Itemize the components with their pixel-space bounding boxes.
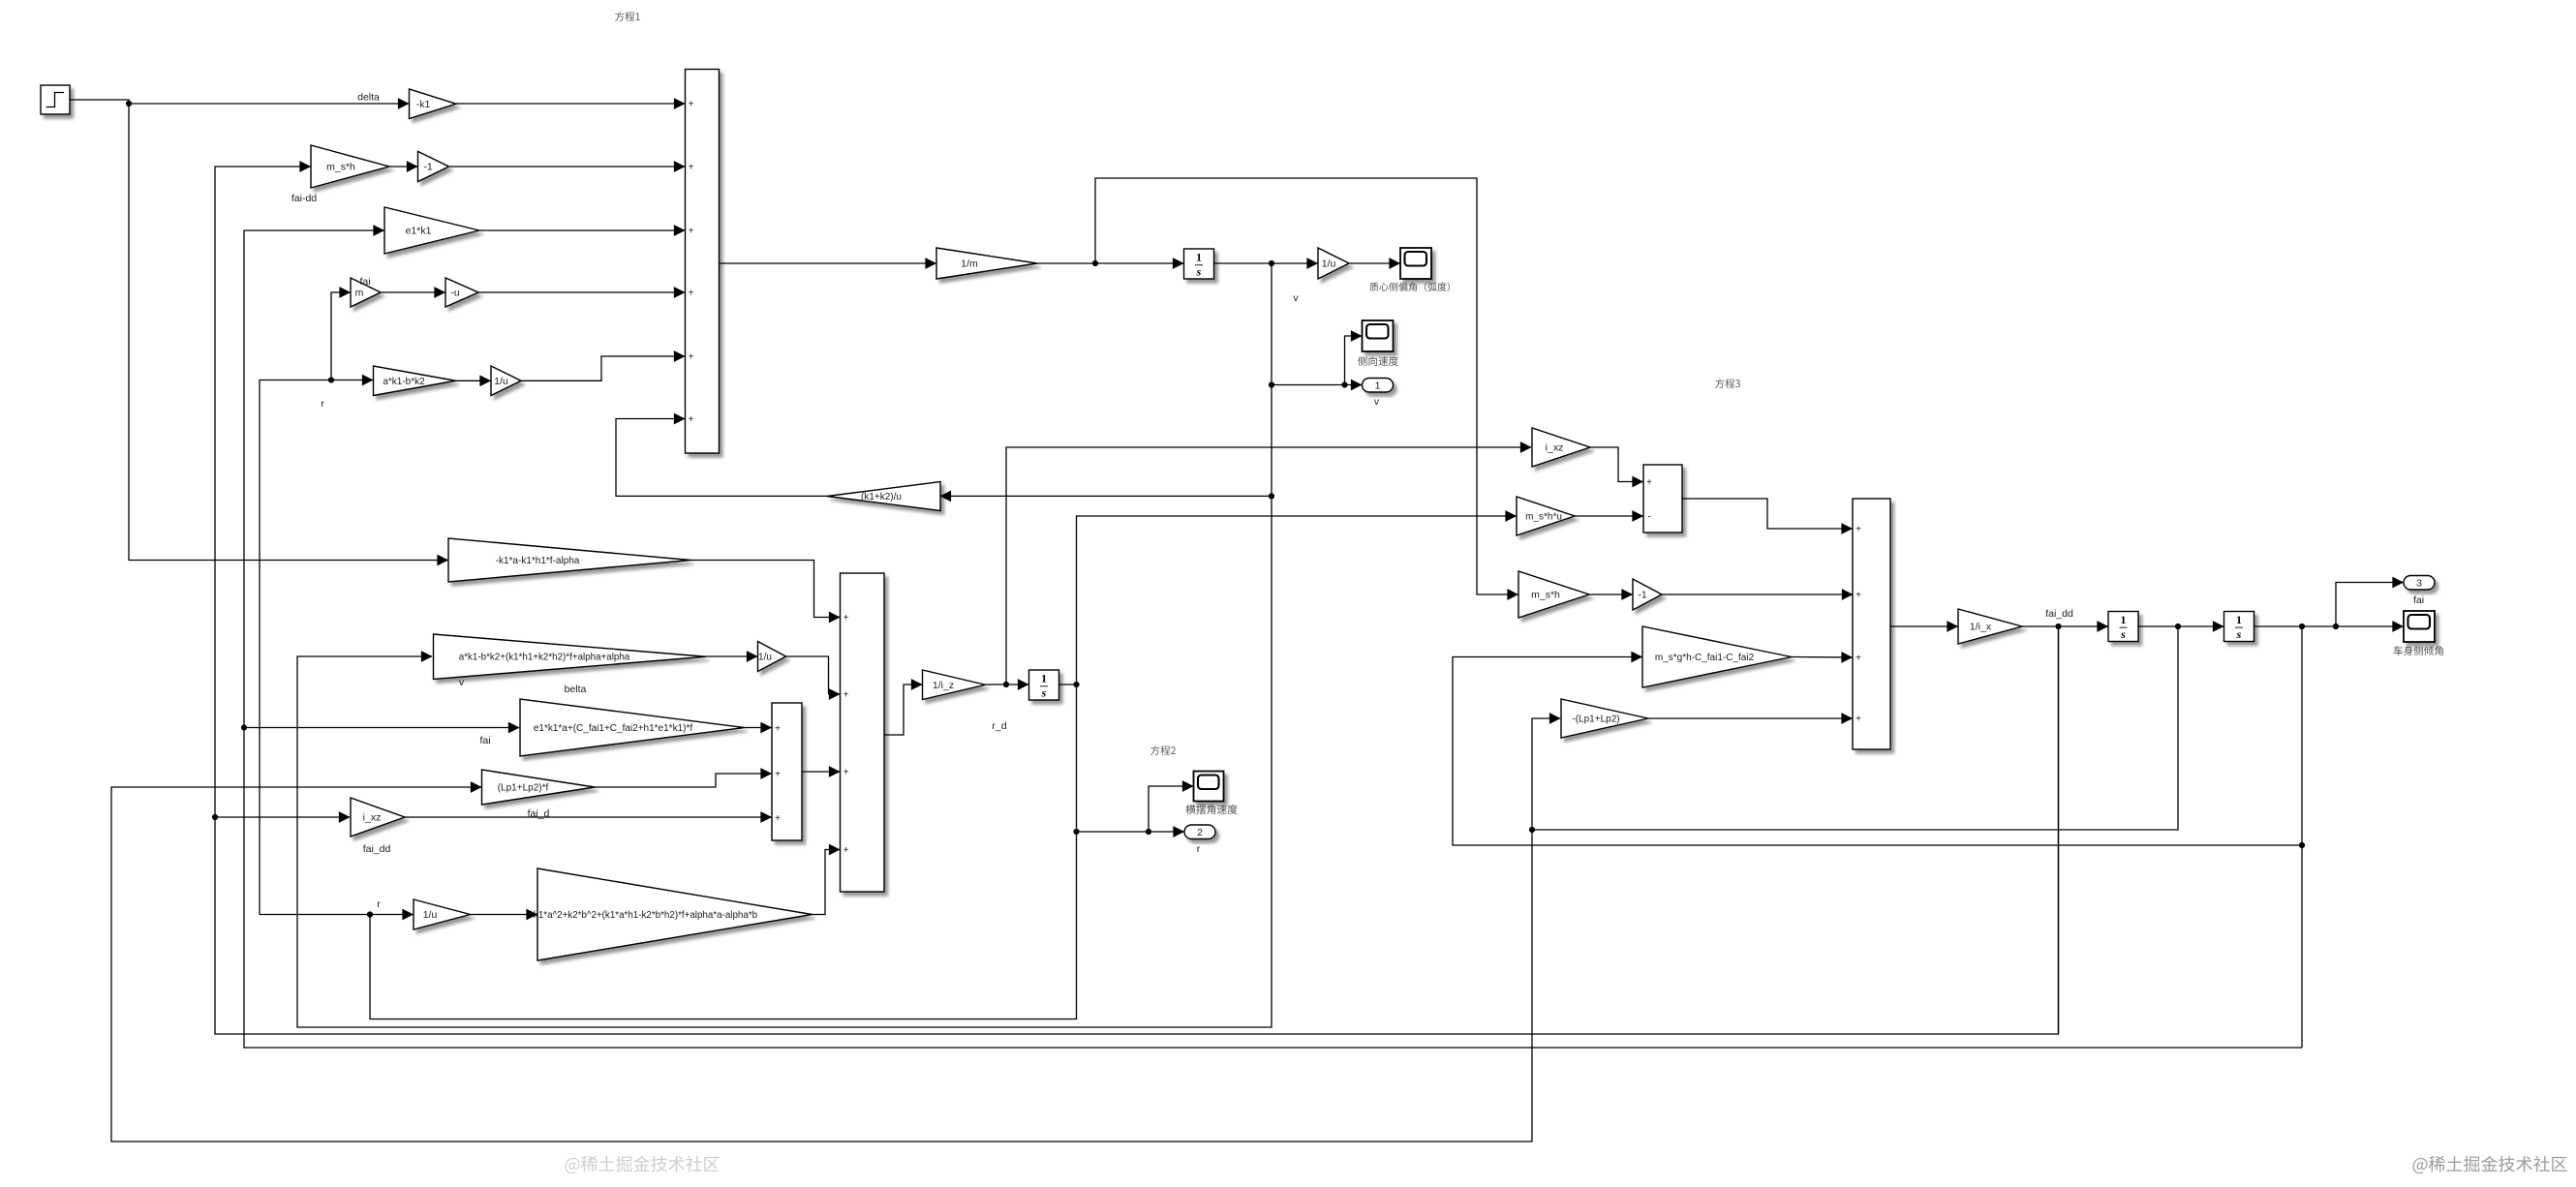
svg-text:s: s bbox=[2236, 627, 2242, 641]
svg-text:belta: belta bbox=[565, 684, 587, 695]
svg-text:+: + bbox=[843, 613, 849, 624]
svg-text:-u: -u bbox=[450, 288, 459, 299]
svg-text:-: - bbox=[1647, 511, 1650, 522]
scope 侧向速度 bbox=[1363, 320, 1394, 351]
wire 1/m to integrator bbox=[1037, 262, 1183, 264]
wire 1/i_x to integrator bbox=[2022, 625, 2108, 627]
junction delta bbox=[126, 101, 132, 107]
wire m to -u bbox=[381, 291, 445, 293]
junction fai_dd tap bbox=[212, 814, 218, 820]
svg-text:s: s bbox=[1196, 265, 1202, 279]
wire v to scope 侧向速度 bbox=[1345, 336, 1363, 385]
svg-text:a*k1-b*k2: a*k1-b*k2 bbox=[383, 377, 425, 387]
output port 3 fai bbox=[2404, 576, 2435, 591]
wire a*k1-b*k2 to 1/u bbox=[456, 380, 491, 381]
svg-text:r: r bbox=[377, 898, 381, 910]
gain m bbox=[351, 278, 381, 307]
junction r bottom bbox=[367, 911, 373, 917]
svg-text:a*k1-b*k2+(k1*h1+k2*h2)*f+alph: a*k1-b*k2+(k1*h1+k2*h2)*f+alpha+alpha bbox=[459, 653, 630, 663]
wire e1*k1 to sum bbox=[479, 229, 685, 231]
junction r out bbox=[1073, 682, 1079, 687]
gain i_xz (eq2) bbox=[351, 798, 405, 837]
svg-text:i_xz: i_xz bbox=[1546, 442, 1564, 454]
junction fai tap bbox=[241, 724, 247, 730]
svg-text:v: v bbox=[1374, 396, 1380, 408]
gain 1/i_z bbox=[923, 670, 986, 700]
wire integrator to integrator bbox=[2139, 625, 2224, 627]
wire fai feedback to e1*k1 bbox=[244, 230, 2302, 1048]
svg-text:m_s*h: m_s*h bbox=[1531, 590, 1560, 601]
svg-text:1/i_x: 1/i_x bbox=[1970, 622, 1992, 633]
junction vdot bbox=[1092, 260, 1098, 266]
svg-text:2: 2 bbox=[1197, 827, 1203, 838]
wire fai_dd to i_xz bbox=[215, 816, 350, 818]
label 质心侧偏角（弧度） bbox=[1369, 282, 1450, 291]
sum block eq1 bbox=[686, 70, 720, 454]
wire (Lp1+Lp2)*f to small sum bbox=[595, 774, 772, 787]
svg-text:e1*k1: e1*k1 bbox=[406, 226, 432, 237]
label 横摆角速度 bbox=[1185, 805, 1237, 814]
svg-text:-1: -1 bbox=[1638, 590, 1646, 601]
gain 1/u (r row) bbox=[414, 899, 471, 929]
gain 1/i_x bbox=[1958, 609, 2022, 644]
gain 1/u (belta) bbox=[758, 642, 786, 672]
svg-text:fai: fai bbox=[479, 735, 490, 746]
junction fai m_s*g*h tap bbox=[2299, 842, 2305, 848]
gain (Lp1+Lp2)*f bbox=[482, 770, 596, 805]
wire r feedback down bbox=[370, 685, 1077, 1020]
svg-text:s: s bbox=[2120, 627, 2126, 641]
svg-text:3: 3 bbox=[2416, 578, 2422, 590]
wire -k1*a gain to sum eq2 input1 bbox=[690, 561, 840, 618]
wire sum to 1/m bbox=[720, 262, 936, 264]
wire v feedback to belta gain bbox=[297, 263, 1272, 1027]
annotation 方程3 bbox=[1715, 379, 1740, 388]
svg-text:r: r bbox=[1197, 843, 1201, 855]
gain 1/m bbox=[936, 248, 1037, 279]
wire -(Lp1+Lp2) to sum eq3 bbox=[1648, 717, 1853, 719]
svg-text:-(Lp1+Lp2): -(Lp1+Lp2) bbox=[1572, 715, 1619, 725]
wire fai_d to (Lp1+Lp2)*f bbox=[111, 787, 1532, 1141]
wire m_s*h to -1 eq3 bbox=[1589, 593, 1633, 595]
svg-text:fai_dd: fai_dd bbox=[363, 843, 391, 855]
svg-text:m: m bbox=[355, 288, 364, 299]
gain i_xz (eq3) bbox=[1532, 428, 1590, 467]
wire r to left riser bbox=[260, 914, 370, 916]
svg-text:-k1*a-k1*h1*f-alpha: -k1*a-k1*h1*f-alpha bbox=[496, 556, 580, 566]
wire m_s*g*h to sum eq3 bbox=[1792, 656, 1853, 659]
svg-text:fai_d: fai_d bbox=[528, 808, 550, 820]
wire delta down to -k1*a gain bbox=[129, 104, 448, 561]
step input block bbox=[41, 85, 70, 114]
wire (k1+k2)/u to sum input 6 bbox=[616, 419, 827, 497]
sum block (3 inputs eq2) bbox=[772, 703, 802, 840]
wire vdot to m_s*h eq3 bbox=[1095, 178, 1518, 594]
svg-text:delta: delta bbox=[357, 92, 380, 104]
gain k1*a^2+k2*b^2+(k1*a*h1-k2*b*h2)*f+alpha*a-alpha*b bbox=[534, 868, 813, 960]
gain m_s*g*h-C_fai1-C_fai2 bbox=[1642, 626, 1792, 687]
svg-text:1/u: 1/u bbox=[758, 653, 772, 663]
gain 1/u (a*k1-b*k2 row) bbox=[491, 366, 521, 396]
svg-text:s: s bbox=[1041, 686, 1047, 700]
watermark right bbox=[2413, 1156, 2567, 1173]
svg-text:e1*k1*a+(C_fai1+C_fai2+h1*e1*k: e1*k1*a+(C_fai1+C_fai2+h1*e1*k1)*f bbox=[534, 723, 693, 734]
gain a*k1-b*k2 bbox=[374, 366, 456, 396]
svg-text:1/u: 1/u bbox=[494, 376, 508, 387]
scope 质心侧偏角（弧度） bbox=[1400, 248, 1431, 279]
gain -k1*a-k1*h1*f-alpha bbox=[448, 538, 690, 582]
junction r bbox=[328, 377, 334, 382]
wire r to m gain bbox=[331, 292, 351, 380]
svg-text:1: 1 bbox=[1041, 672, 1047, 685]
svg-text:(Lp1+Lp2)*f: (Lp1+Lp2)*f bbox=[498, 783, 549, 794]
wire integrator r out bbox=[1058, 684, 1077, 685]
junction fai port tap bbox=[2333, 624, 2339, 629]
junction fai_dd out bbox=[2055, 624, 2061, 629]
wire r_d to i_xz eq3 bbox=[1006, 447, 1531, 685]
gain e1*k1 bbox=[384, 207, 479, 254]
svg-text:+: + bbox=[843, 845, 849, 856]
wire fai_dd feedback to m_s*h bbox=[215, 167, 2059, 1034]
svg-text:+: + bbox=[1855, 524, 1861, 534]
svg-text:(k1+k2)/u: (k1+k2)/u bbox=[861, 492, 902, 502]
svg-text:v: v bbox=[1293, 292, 1299, 304]
svg-text:1: 1 bbox=[1196, 251, 1202, 264]
wire e1*k1*a to small sum bbox=[745, 727, 772, 729]
wire big gain to sum eq2 input4 bbox=[813, 850, 841, 915]
wire fai to m_s*g*h gain bbox=[1453, 657, 2302, 846]
wire to scope 车身侧倾角 bbox=[2254, 625, 2404, 627]
svg-text:i_xz: i_xz bbox=[363, 812, 382, 824]
annotation 方程1 bbox=[615, 12, 640, 21]
wire m_s*h*u to small sum eq3 bbox=[1575, 515, 1643, 517]
junction r_d bbox=[1003, 682, 1009, 687]
wire fai_d to -(Lp1+Lp2) bbox=[1532, 718, 1560, 830]
wire belta gain to 1/u bbox=[706, 655, 757, 657]
svg-text:fai-dd: fai-dd bbox=[291, 193, 317, 204]
wire 1/u to sum eq2 input2 bbox=[786, 656, 841, 694]
wire step output bbox=[70, 100, 129, 104]
svg-text:+: + bbox=[689, 414, 694, 425]
wire small sum to sum eq2 input3 bbox=[802, 771, 840, 773]
wire 1/u to sum input 5 bbox=[521, 356, 685, 380]
wire integrator to 1/u bbox=[1213, 262, 1318, 264]
junction r scope branch bbox=[1146, 829, 1151, 835]
wire fai to port 3 bbox=[2336, 583, 2404, 627]
svg-text:+: + bbox=[1646, 477, 1652, 488]
wire -1 to sum eq3 bbox=[1662, 593, 1853, 595]
gain -1 (eq1) bbox=[418, 151, 449, 181]
svg-text:+: + bbox=[775, 769, 781, 779]
svg-text:+: + bbox=[1855, 653, 1861, 663]
gain -(Lp1+Lp2) bbox=[1561, 699, 1648, 738]
svg-text:m_s*h*u: m_s*h*u bbox=[1525, 512, 1562, 523]
sum block eq3 bbox=[1853, 499, 1890, 749]
integrator 1/s (fai_d) bbox=[2108, 612, 2138, 642]
svg-text:+: + bbox=[1855, 714, 1861, 724]
label 侧向速度 bbox=[1358, 356, 1398, 366]
wire -1 to sum bbox=[449, 166, 686, 167]
wire 1/u to big gain bbox=[471, 914, 537, 916]
junction v k1k2u tap bbox=[1269, 493, 1274, 499]
gain m_s*h (eq1) bbox=[311, 145, 389, 188]
wire r to scope 横摆角速度 bbox=[1149, 786, 1193, 832]
gain (k1+k2)/u (left-pointing) bbox=[827, 482, 940, 511]
scope 横摆角速度 bbox=[1194, 772, 1224, 802]
gain a*k1-b*k2+(k1*h1+k2*h2)*f+alpha+alpha bbox=[434, 634, 707, 680]
wire v to (k1+k2)/u input bbox=[940, 495, 1272, 497]
wire i_xz to small sum bbox=[405, 816, 772, 818]
svg-text:+: + bbox=[1855, 590, 1861, 600]
junction fai out bbox=[2299, 624, 2305, 629]
integrator 1/s (fai) bbox=[2224, 612, 2254, 642]
gain -1 (eq3) bbox=[1633, 579, 1662, 610]
svg-text:1/m: 1/m bbox=[961, 259, 978, 270]
svg-text:v: v bbox=[459, 677, 465, 688]
svg-text:+: + bbox=[689, 162, 694, 172]
junction fai_d bbox=[1529, 827, 1535, 833]
wire sum eq3 to 1/i_x bbox=[1890, 625, 1958, 627]
svg-text:+: + bbox=[775, 723, 781, 734]
wire delta to -k1 bbox=[129, 103, 409, 105]
sum block (i_xz minus m_s*h*u) bbox=[1643, 465, 1682, 533]
svg-text:+: + bbox=[689, 288, 694, 298]
svg-text:r_d: r_d bbox=[992, 720, 1006, 732]
wire v to port 1 bbox=[1272, 384, 1362, 386]
wire fai to e1*k1*a gain bbox=[244, 727, 519, 729]
label 车身侧倾角 bbox=[2394, 646, 2443, 655]
svg-text:-k1: -k1 bbox=[416, 99, 431, 110]
watermark center bbox=[566, 1156, 720, 1173]
gain -k1 bbox=[410, 89, 457, 119]
sum block eq2 bbox=[841, 573, 885, 892]
svg-text:1: 1 bbox=[2121, 613, 2127, 626]
svg-text:r: r bbox=[321, 398, 324, 410]
svg-text:m_s*h: m_s*h bbox=[326, 162, 355, 173]
wire i_xz to small sum eq3 bbox=[1590, 447, 1643, 482]
wire sum eq2 to 1/i_z bbox=[884, 685, 922, 735]
gain -u bbox=[445, 278, 478, 307]
svg-text:1/u: 1/u bbox=[423, 909, 438, 921]
wire r to a*k1-b*k2 bbox=[331, 380, 373, 381]
gain m_s*h*u bbox=[1517, 497, 1575, 535]
svg-text:1/u: 1/u bbox=[1322, 259, 1336, 270]
svg-text:1: 1 bbox=[2236, 613, 2242, 626]
gain m_s*h (eq3) bbox=[1518, 571, 1589, 618]
integrator 1/s (v) bbox=[1184, 249, 1214, 279]
wire m_s*h to -1 bbox=[389, 166, 417, 167]
junction v scope tap bbox=[1341, 381, 1347, 387]
junction r scope tap bbox=[1073, 829, 1079, 835]
wire -u to sum bbox=[478, 291, 685, 293]
wire fai_dd down bbox=[2058, 626, 2060, 1034]
wire fai_d feedback bbox=[1532, 626, 2178, 830]
svg-text:m_s*g*h-C_fai1-C_fai2: m_s*g*h-C_fai1-C_fai2 bbox=[1655, 653, 1755, 663]
output port 2 r bbox=[1184, 825, 1215, 839]
svg-text:fai_dd: fai_dd bbox=[2045, 608, 2073, 620]
wire r to m_s*h*u bbox=[1077, 516, 1517, 685]
wire -k1 to sum bbox=[456, 103, 685, 105]
wire fai down bbox=[2301, 626, 2303, 1048]
gain 1/u (beta) bbox=[1318, 248, 1349, 279]
svg-text:1: 1 bbox=[1375, 380, 1381, 392]
wire r up from bottom bbox=[260, 380, 331, 915]
wire r to 1/u bottom bbox=[370, 914, 414, 916]
wire 1/u to scope bbox=[1349, 262, 1400, 264]
wire 1/i_z to integrator bbox=[986, 684, 1029, 685]
svg-text:+: + bbox=[843, 689, 849, 700]
svg-text:+: + bbox=[689, 99, 694, 109]
svg-text:fai: fai bbox=[359, 276, 370, 288]
svg-text:+: + bbox=[775, 813, 781, 824]
junction v port tap bbox=[1269, 381, 1274, 387]
svg-text:k1*a^2+k2*b^2+(k1*a*h1-k2*b*h2: k1*a^2+k2*b^2+(k1*a*h1-k2*b*h2)*f+alpha*… bbox=[534, 910, 758, 921]
svg-text:1/i_z: 1/i_z bbox=[933, 680, 954, 691]
svg-text:-1: -1 bbox=[423, 162, 432, 173]
output port 1 v bbox=[1363, 379, 1394, 393]
wire small sum to sum eq3 bbox=[1682, 499, 1853, 529]
gain e1*k1*a+(C_fai1+C_fai2+h1*e1*k1)*f bbox=[520, 699, 745, 756]
annotation 方程2 bbox=[1150, 746, 1176, 755]
svg-text:+: + bbox=[689, 351, 694, 362]
scope 车身侧倾角 bbox=[2404, 611, 2435, 642]
wire r to port 2 bbox=[1077, 831, 1184, 833]
svg-text:+: + bbox=[689, 226, 694, 236]
integrator 1/s (r) bbox=[1029, 670, 1059, 700]
junction v bbox=[1269, 260, 1274, 266]
svg-text:fai: fai bbox=[2413, 594, 2424, 606]
svg-text:+: + bbox=[843, 767, 849, 777]
junction fai_d out bbox=[2175, 624, 2181, 629]
